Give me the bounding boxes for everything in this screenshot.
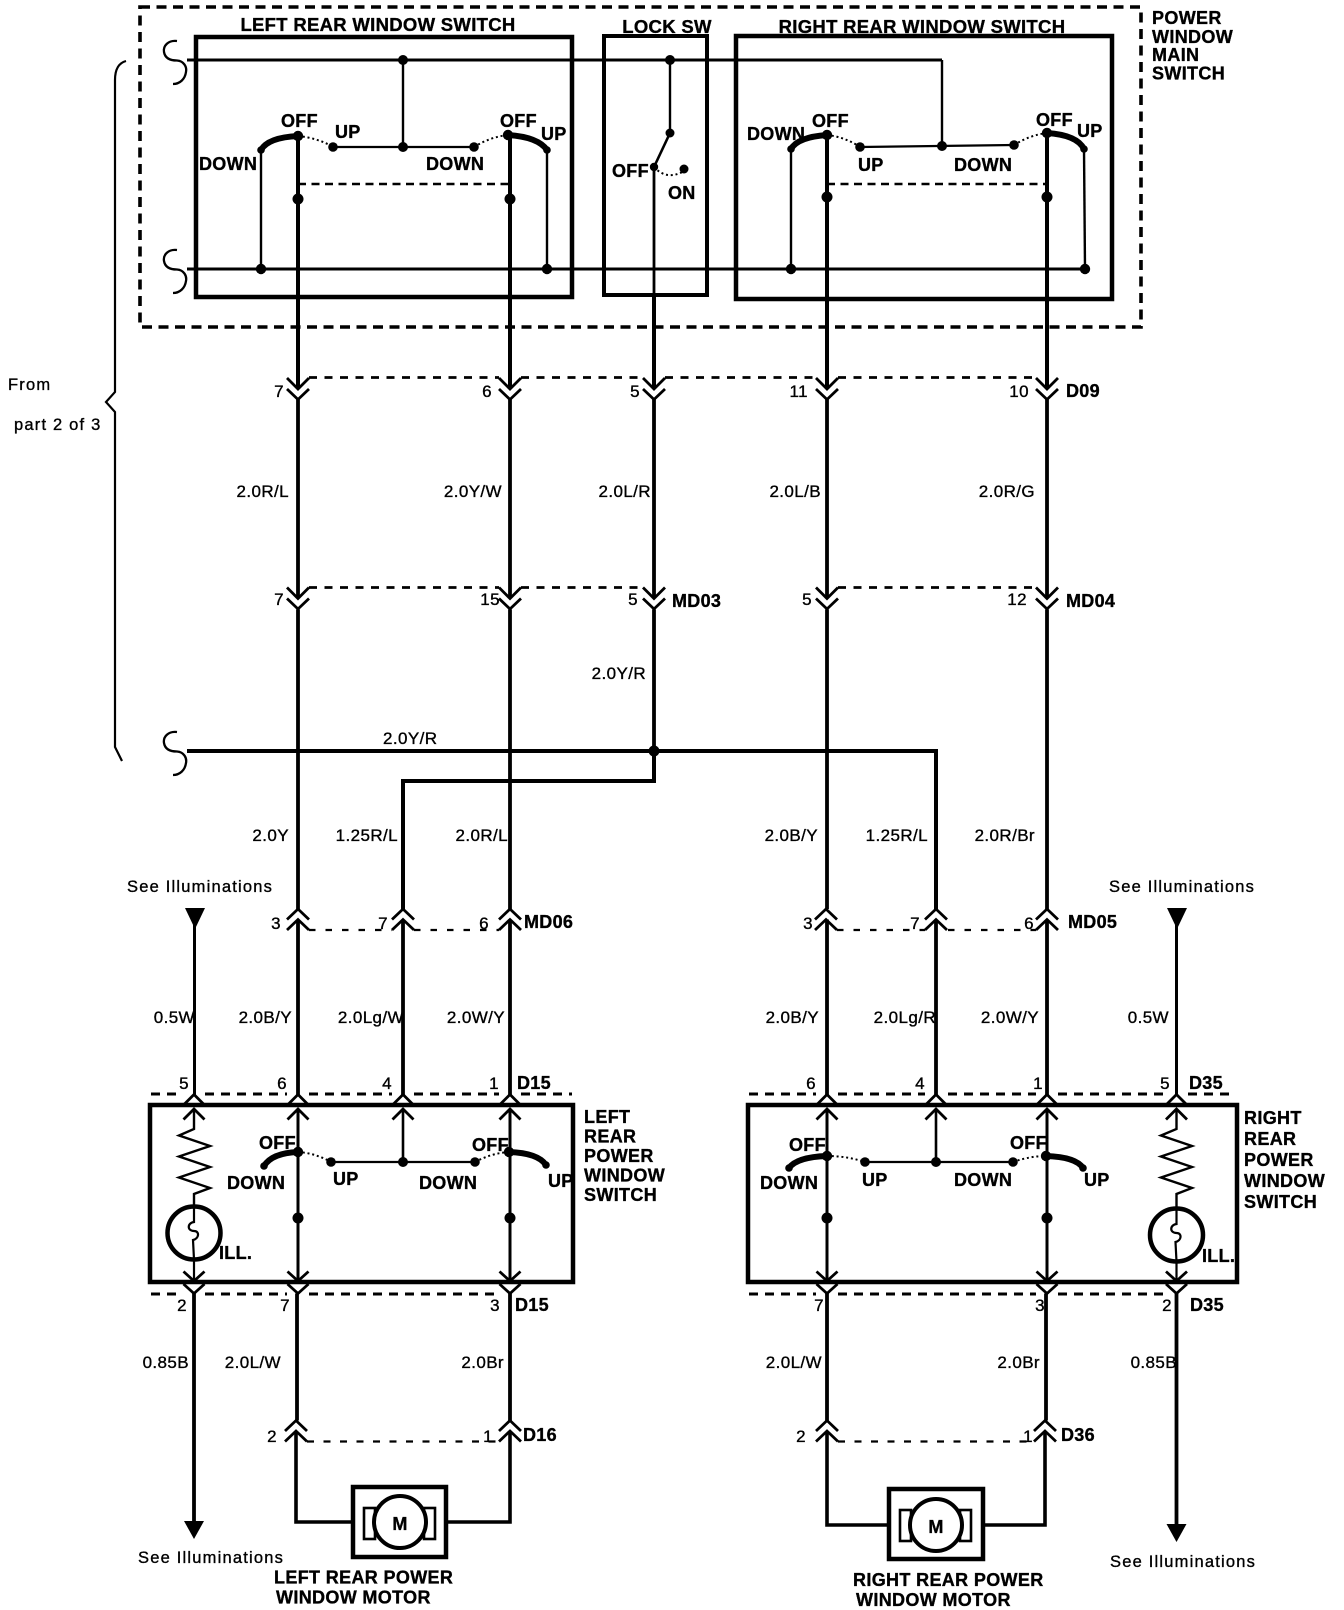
connector MD04 pin 12 bbox=[1007, 588, 1058, 610]
wire 2.0L/B D09-MD04 bbox=[825, 400, 829, 599]
connector MD06 pin 7 bbox=[378, 909, 414, 933]
svg-text:DOWN: DOWN bbox=[954, 1170, 1012, 1190]
wire pin1 internal left box bbox=[509, 1109, 512, 1281]
wire top bus drop right box bbox=[941, 60, 943, 146]
svg-text:2.0R/G: 2.0R/G bbox=[979, 482, 1035, 501]
connector D09 pin 5 bbox=[630, 378, 665, 401]
connector D09 pin 11 bbox=[790, 378, 838, 401]
wire bottom bus bbox=[187, 268, 1086, 271]
contact bar lower-right box bbox=[865, 1161, 1013, 1163]
switch right box sw1 pivot bbox=[822, 130, 832, 140]
svg-text:POWER: POWER bbox=[1152, 8, 1222, 28]
svg-text:WINDOW: WINDOW bbox=[584, 1166, 665, 1186]
switch left box sw2 pivot bbox=[503, 130, 513, 140]
svg-text:LEFT REAR WINDOW SWITCH: LEFT REAR WINDOW SWITCH bbox=[240, 14, 515, 35]
node UP leg right bottom bus bbox=[1080, 264, 1090, 274]
right rear power window switch box bbox=[748, 1105, 1237, 1282]
wire top bus drop left box bbox=[402, 60, 404, 147]
connector MD04 pin 5 bbox=[802, 588, 838, 610]
switch lower-right sw1 pivot bbox=[822, 1151, 832, 1161]
wire pivot leg right sw2 bbox=[1045, 133, 1049, 389]
contact dot left sw2 bbox=[469, 142, 479, 152]
svg-text:OFF: OFF bbox=[789, 1135, 826, 1155]
power window main switch dashed box bbox=[140, 7, 1141, 327]
arrow see illuminations bottom left bbox=[184, 1521, 204, 1539]
wire 0.5W left bbox=[193, 925, 196, 1095]
svg-text:2.0Br: 2.0Br bbox=[461, 1353, 504, 1372]
lock switch box bbox=[604, 36, 707, 295]
switch right box sw1 dotted travel bbox=[827, 135, 860, 147]
wire right motor feed right bbox=[983, 1431, 1045, 1525]
connector MD05 pin 7 bbox=[910, 909, 947, 933]
connector MD03 pin 5 bbox=[628, 588, 665, 610]
wire 2.0R/Br MD04-MD05 bbox=[1045, 610, 1049, 910]
connector D35 pin 1 bbox=[1033, 1074, 1057, 1120]
switch right box sw2 blade bbox=[1047, 133, 1084, 149]
wire left motor feed right bbox=[446, 1431, 510, 1522]
svg-text:1: 1 bbox=[483, 1427, 493, 1446]
wire break top bus bbox=[164, 41, 186, 84]
wire 2.0B/Y MD06-D15 bbox=[296, 920, 300, 1095]
svg-text:SWITCH: SWITCH bbox=[1152, 64, 1225, 84]
switch right box sw1 blade tip bbox=[787, 145, 795, 153]
motor right brush right bbox=[960, 1510, 971, 1541]
motor left rear power window housing bbox=[353, 1487, 446, 1557]
resistor left ILL bbox=[179, 1109, 210, 1207]
svg-text:POWER: POWER bbox=[1244, 1150, 1314, 1170]
svg-text:SWITCH: SWITCH bbox=[584, 1185, 657, 1205]
wire 0.85B left bbox=[192, 1294, 196, 1522]
svg-text:6: 6 bbox=[806, 1074, 816, 1093]
dashed link right box bbox=[827, 183, 1047, 185]
svg-text:UP: UP bbox=[1077, 121, 1103, 141]
node drop to contact bar right bbox=[937, 141, 947, 151]
svg-text:UP: UP bbox=[335, 122, 361, 142]
wire DOWN leg right sw1 bbox=[790, 149, 792, 269]
svg-text:1.25R/L: 1.25R/L bbox=[866, 826, 928, 845]
wire DOWN leg left sw1 bbox=[260, 150, 262, 269]
svg-text:3: 3 bbox=[490, 1296, 500, 1315]
svg-text:0.5W: 0.5W bbox=[1128, 1008, 1169, 1027]
contact dot DOWN right sw2 bbox=[1009, 140, 1019, 150]
svg-text:5: 5 bbox=[1160, 1074, 1170, 1093]
switch left box sw1 pivot bbox=[293, 131, 303, 141]
svg-text:LEFT REAR POWER: LEFT REAR POWER bbox=[274, 1568, 453, 1588]
wire 2.0R/L D09-MD03 bbox=[296, 400, 300, 599]
connector D35 pin 6 bbox=[806, 1074, 837, 1120]
motor right brush left bbox=[900, 1510, 911, 1541]
motor left rotor M bbox=[374, 1496, 426, 1548]
svg-text:1.25R/L: 1.25R/L bbox=[336, 826, 398, 845]
svg-text:1: 1 bbox=[1023, 1427, 1033, 1446]
dashed row D09 bbox=[309, 376, 1036, 379]
svg-text:WINDOW MOTOR: WINDOW MOTOR bbox=[276, 1588, 431, 1608]
node UP leg bottom bus bbox=[542, 264, 552, 274]
svg-text:5: 5 bbox=[802, 590, 812, 609]
label From part 2 of 3 bbox=[8, 376, 102, 434]
wire pin6 internal right box bbox=[826, 1109, 829, 1281]
svg-text:DOWN: DOWN bbox=[227, 1173, 285, 1193]
wire lock switch drop bbox=[669, 60, 671, 133]
connector MD03 pin 7 bbox=[274, 588, 309, 610]
connector D35 pin 5 bbox=[1160, 1074, 1187, 1120]
wire 2.0R/L MD03-MD06 bbox=[508, 610, 512, 910]
svg-text:7: 7 bbox=[274, 590, 284, 609]
dashed row MD04 bbox=[838, 586, 1036, 589]
svg-text:POWER: POWER bbox=[584, 1146, 654, 1166]
connector D15 pin 1 bbox=[489, 1074, 520, 1120]
node DOWN leg bottom bus bbox=[256, 264, 266, 274]
node pivot leg left sw1 bbox=[293, 194, 304, 205]
node pin1 leg lower-left bbox=[505, 1213, 516, 1224]
svg-text:WINDOW: WINDOW bbox=[1244, 1171, 1325, 1191]
svg-text:D15: D15 bbox=[517, 1073, 551, 1093]
svg-text:RIGHT REAR WINDOW SWITCH: RIGHT REAR WINDOW SWITCH bbox=[779, 16, 1066, 37]
svg-text:RIGHT REAR POWER: RIGHT REAR POWER bbox=[853, 1570, 1044, 1590]
svg-text:DOWN: DOWN bbox=[954, 155, 1012, 175]
label LEFT REAR POWER WINDOW MOTOR bbox=[274, 1568, 453, 1608]
svg-text:UP: UP bbox=[1084, 1170, 1110, 1190]
svg-text:2.0Lg/R: 2.0Lg/R bbox=[874, 1008, 936, 1027]
svg-text:D09: D09 bbox=[1066, 381, 1100, 401]
node DOWN leg right bottom bus bbox=[786, 264, 796, 274]
svg-text:UP: UP bbox=[858, 155, 884, 175]
wire 2.0Y MD03-MD06 bbox=[296, 610, 300, 910]
left rear window switch box bbox=[196, 37, 572, 297]
switch lower-left sw2 blade tip bbox=[542, 1161, 550, 1169]
svg-text:D15: D15 bbox=[515, 1295, 549, 1315]
lamp left ILL bulb bbox=[168, 1207, 221, 1260]
svg-text:REAR: REAR bbox=[1244, 1129, 1296, 1149]
svg-text:ON: ON bbox=[668, 183, 696, 203]
label RIGHT REAR POWER WINDOW MOTOR bbox=[853, 1570, 1044, 1610]
svg-text:6: 6 bbox=[482, 382, 492, 401]
connector D15 bottom pin 2 bbox=[177, 1272, 204, 1316]
svg-text:7: 7 bbox=[280, 1296, 290, 1315]
svg-text:DOWN: DOWN bbox=[760, 1173, 818, 1193]
svg-text:2.0W/Y: 2.0W/Y bbox=[981, 1008, 1039, 1027]
wire 2.0R/G D09-MD04 bbox=[1045, 400, 1049, 599]
connector D15 bottom pin 7 bbox=[280, 1272, 308, 1316]
left rear power window switch box bbox=[150, 1105, 573, 1282]
svg-text:DOWN: DOWN bbox=[419, 1173, 477, 1193]
svg-text:2.0W/Y: 2.0W/Y bbox=[447, 1008, 505, 1027]
switch lower-left sw1 pivot bbox=[293, 1147, 303, 1157]
dashed row D16 bbox=[307, 1440, 499, 1442]
connector MD05 pin 6 bbox=[1024, 909, 1058, 933]
switch lower-left sw1 blade tip bbox=[260, 1162, 268, 1170]
switch left box sw2 blade tip bbox=[543, 146, 551, 154]
switch left box sw2 blade bbox=[508, 135, 547, 150]
svg-text:0.85B: 0.85B bbox=[1131, 1353, 1177, 1372]
svg-text:REAR: REAR bbox=[584, 1127, 636, 1147]
svg-text:SWITCH: SWITCH bbox=[1244, 1192, 1317, 1212]
node pin6 leg lower-right bbox=[822, 1213, 833, 1224]
svg-text:7: 7 bbox=[274, 382, 284, 401]
svg-text:M: M bbox=[392, 1514, 407, 1534]
svg-text:2.0Y: 2.0Y bbox=[252, 826, 289, 845]
dashed row MD03 bbox=[309, 586, 643, 589]
svg-text:1: 1 bbox=[1033, 1074, 1043, 1093]
lamp right ILL bulb bbox=[1150, 1209, 1203, 1262]
node 2.0Y/R junction bbox=[649, 746, 660, 757]
dashed row D35 top bbox=[749, 1093, 1236, 1096]
connector D35 bottom pin 3 bbox=[1035, 1272, 1057, 1316]
label RIGHT REAR POWER WINDOW SWITCH bbox=[1244, 1108, 1325, 1212]
wire 2.0L/R D09-MD03 bbox=[652, 400, 656, 599]
contact bar lower-left box bbox=[331, 1161, 475, 1163]
svg-text:UP: UP bbox=[862, 1170, 888, 1190]
svg-text:7: 7 bbox=[814, 1296, 824, 1315]
wire pivot leg right sw1 bbox=[825, 135, 829, 389]
svg-text:D35: D35 bbox=[1189, 1073, 1223, 1093]
arrow see illuminations bottom right bbox=[1167, 1524, 1187, 1542]
wire lock pivot leg below box bbox=[652, 293, 656, 389]
wire 2.0Y/R horizontal bus bbox=[187, 751, 936, 909]
svg-text:OFF: OFF bbox=[281, 111, 318, 131]
svg-text:DOWN: DOWN bbox=[199, 154, 257, 174]
svg-text:OFF: OFF bbox=[612, 161, 649, 181]
svg-text:5: 5 bbox=[630, 382, 640, 401]
svg-text:2.0L/W: 2.0L/W bbox=[766, 1353, 822, 1372]
switch right box sw2 dotted travel bbox=[1014, 133, 1047, 145]
switch left box sw2 dotted travel bbox=[474, 135, 508, 147]
contact dot DOWN lower-right sw2 bbox=[1008, 1157, 1018, 1167]
wire break bottom bus bbox=[164, 250, 186, 293]
dashed row D35 bottom bbox=[749, 1293, 1166, 1296]
svg-text:2.0L/R: 2.0L/R bbox=[599, 482, 652, 501]
svg-text:2.0R/L: 2.0R/L bbox=[456, 826, 509, 845]
node drop to contact bar left bbox=[398, 142, 408, 152]
connector D15 pin 4 bbox=[382, 1074, 413, 1120]
wire 2.0W/Y MD06-D15 bbox=[508, 920, 512, 1095]
wire 1.25R/L branch to MD06 bbox=[403, 751, 654, 909]
wire pin1 internal right box bbox=[1046, 1109, 1049, 1281]
wire pin4 drop to bar bbox=[402, 1109, 405, 1162]
lock switch blade bbox=[654, 133, 670, 167]
node pivot leg right sw1 bbox=[822, 192, 833, 203]
wire lock pivot leg bbox=[653, 167, 656, 295]
svg-text:D16: D16 bbox=[523, 1425, 557, 1445]
connector D35 bottom pin 7 bbox=[814, 1272, 837, 1316]
node pin4 bar junction right bbox=[931, 1157, 941, 1167]
wire left motor feed left bbox=[296, 1431, 353, 1522]
lamp left filament bbox=[189, 1207, 198, 1282]
svg-text:2.0Y/R: 2.0Y/R bbox=[383, 729, 437, 748]
motor left brush right bbox=[424, 1508, 435, 1539]
lock ON contact bbox=[680, 165, 689, 174]
contact bar left box bbox=[333, 146, 474, 148]
svg-text:See Illuminations: See Illuminations bbox=[1110, 1553, 1256, 1571]
connector MD03 pin 15 bbox=[480, 588, 521, 610]
wire pivot leg left sw2 bbox=[508, 135, 512, 389]
dashed row D15 bottom bbox=[151, 1293, 499, 1296]
contact dot DOWN lower-left sw2 bbox=[470, 1157, 480, 1167]
wire 2.0L/W left D15-D16 bbox=[295, 1294, 299, 1421]
svg-text:ILL.: ILL. bbox=[1202, 1246, 1235, 1266]
svg-text:7: 7 bbox=[910, 914, 920, 933]
connector D35 bottom pin 2 bbox=[1162, 1272, 1187, 1316]
wire UP leg right sw2 bbox=[1084, 149, 1085, 269]
svg-text:12: 12 bbox=[1007, 590, 1027, 609]
svg-text:2.0R/L: 2.0R/L bbox=[237, 482, 290, 501]
svg-text:UP: UP bbox=[333, 1169, 359, 1189]
right rear window switch box bbox=[736, 36, 1112, 299]
svg-text:From: From bbox=[8, 376, 51, 394]
lamp right filament bbox=[1171, 1209, 1180, 1282]
switch right box sw1 blade bbox=[791, 135, 827, 149]
node top bus to left switch bbox=[398, 55, 408, 65]
contact dot UP lower-right sw1 bbox=[860, 1157, 870, 1167]
svg-text:OFF: OFF bbox=[500, 111, 537, 131]
wire pin6 internal left box bbox=[297, 1109, 300, 1281]
dashed row MD05 bbox=[837, 929, 1036, 931]
resistor right ILL bbox=[1161, 1109, 1192, 1209]
wire 2.0Br right D35-D36 bbox=[1044, 1294, 1048, 1421]
svg-text:MD04: MD04 bbox=[1066, 591, 1115, 611]
switch lower-right sw2 dotted travel bbox=[1013, 1156, 1046, 1162]
svg-text:RIGHT: RIGHT bbox=[1244, 1108, 1302, 1128]
wire 2.0Lg/W MD06-D15 bbox=[401, 920, 405, 1095]
svg-text:OFF: OFF bbox=[259, 1133, 296, 1153]
wire 2.0Lg/R MD05-D35 bbox=[934, 920, 938, 1095]
svg-text:15: 15 bbox=[480, 590, 500, 609]
svg-text:2.0B/Y: 2.0B/Y bbox=[239, 1008, 292, 1027]
svg-text:0.85B: 0.85B bbox=[143, 1353, 189, 1372]
svg-text:D36: D36 bbox=[1061, 1425, 1095, 1445]
svg-text:2.0R/Br: 2.0R/Br bbox=[975, 826, 1035, 845]
node pin1 leg lower-right bbox=[1042, 1213, 1053, 1224]
svg-text:5: 5 bbox=[628, 590, 638, 609]
lock OFF contact bbox=[650, 163, 658, 171]
contact dot UP left sw1 bbox=[328, 142, 338, 152]
node pin4 bar junction bbox=[398, 1157, 408, 1167]
dashed link left box bbox=[298, 183, 508, 185]
switch lower-right sw2 pivot bbox=[1041, 1151, 1051, 1161]
switch left box sw1 blade bbox=[261, 136, 298, 150]
node pin6 leg lower-left bbox=[293, 1213, 304, 1224]
node pivot leg right sw2 bbox=[1042, 192, 1053, 203]
svg-text:3: 3 bbox=[271, 914, 281, 933]
node pivot leg left sw2 bbox=[505, 194, 516, 205]
connector MD05 pin 3 bbox=[803, 909, 837, 933]
svg-text:OFF: OFF bbox=[472, 1135, 509, 1155]
wire 2.0Y/R MD03 to junction bbox=[652, 610, 656, 752]
wire pin4 drop to bar right bbox=[935, 1109, 938, 1162]
svg-text:LOCK SW: LOCK SW bbox=[622, 16, 712, 37]
svg-text:2.0Br: 2.0Br bbox=[997, 1353, 1040, 1372]
svg-text:2.0L/B: 2.0L/B bbox=[769, 482, 821, 501]
svg-text:M: M bbox=[928, 1517, 943, 1537]
wire right motor feed left bbox=[827, 1431, 889, 1525]
svg-text:4: 4 bbox=[915, 1074, 925, 1093]
switch right box sw2 pivot bbox=[1042, 128, 1052, 138]
wire 2.0B/Y MD05-D35 bbox=[825, 920, 829, 1095]
connector D36 pin 2 bbox=[796, 1421, 838, 1447]
svg-text:0.5W: 0.5W bbox=[154, 1008, 195, 1027]
switch lower-right sw2 blade tip bbox=[1079, 1164, 1087, 1172]
wire pivot leg left sw1 bbox=[296, 136, 300, 389]
connector D35 pin 4 bbox=[915, 1074, 946, 1120]
svg-text:LEFT: LEFT bbox=[584, 1107, 630, 1127]
arrow see illuminations right bbox=[1167, 908, 1187, 929]
connector MD06 pin 6 bbox=[479, 909, 521, 933]
wire 2.0W/Y MD05-D35 bbox=[1045, 920, 1049, 1095]
motor left brush left bbox=[364, 1508, 375, 1539]
wire 2.0Y/W D09-MD03 bbox=[508, 400, 512, 599]
svg-text:2.0L/W: 2.0L/W bbox=[225, 1353, 281, 1372]
wire 0.85B right bbox=[1175, 1294, 1179, 1525]
svg-text:1: 1 bbox=[489, 1074, 499, 1093]
svg-text:6: 6 bbox=[277, 1074, 287, 1093]
switch lower-right sw1 blade tip bbox=[785, 1164, 793, 1172]
motor right rotor M bbox=[910, 1499, 962, 1551]
wire UP leg left sw2 bbox=[546, 150, 548, 269]
svg-text:UP: UP bbox=[541, 124, 567, 144]
connector D09 pin 7 bbox=[274, 378, 309, 401]
svg-text:MAIN: MAIN bbox=[1152, 45, 1199, 65]
svg-text:MD05: MD05 bbox=[1068, 912, 1117, 932]
bracket from part 2 of 3 bbox=[106, 61, 126, 761]
switch lower-left sw1 dotted travel bbox=[298, 1152, 331, 1162]
svg-text:2: 2 bbox=[267, 1427, 277, 1446]
contact bar right box bbox=[860, 145, 1014, 147]
svg-text:2: 2 bbox=[796, 1427, 806, 1446]
svg-text:2.0B/Y: 2.0B/Y bbox=[765, 826, 818, 845]
svg-text:See Illuminations: See Illuminations bbox=[138, 1549, 284, 1567]
wire 2.0B/Y MD04-MD05 bbox=[825, 610, 829, 910]
switch lower-right sw2 blade bbox=[1046, 1156, 1083, 1168]
svg-text:MD06: MD06 bbox=[524, 912, 573, 932]
svg-text:11: 11 bbox=[790, 382, 808, 401]
label POWER WINDOW MAIN SWITCH bbox=[1152, 8, 1233, 84]
label LEFT REAR POWER WINDOW SWITCH bbox=[584, 1107, 665, 1205]
switch lower-left sw2 pivot bbox=[504, 1147, 514, 1157]
svg-text:OFF: OFF bbox=[812, 111, 849, 131]
svg-text:4: 4 bbox=[382, 1074, 392, 1093]
svg-text:2.0Y/W: 2.0Y/W bbox=[444, 482, 502, 501]
connector MD06 pin 3 bbox=[271, 909, 309, 933]
connector D15 pin 6 bbox=[277, 1074, 308, 1120]
svg-text:OFF: OFF bbox=[1010, 1133, 1047, 1153]
svg-text:MD03: MD03 bbox=[672, 591, 721, 611]
wire 2.0Br left D15-D16 bbox=[508, 1294, 512, 1421]
svg-text:10: 10 bbox=[1009, 382, 1029, 401]
svg-text:3: 3 bbox=[1035, 1296, 1045, 1315]
svg-text:WINDOW MOTOR: WINDOW MOTOR bbox=[856, 1590, 1011, 1610]
svg-text:2: 2 bbox=[1162, 1296, 1172, 1315]
switch lower-right sw1 dotted travel bbox=[827, 1156, 865, 1162]
svg-text:2.0Lg/W: 2.0Lg/W bbox=[338, 1008, 404, 1027]
switch lower-left sw2 dotted travel bbox=[475, 1152, 509, 1162]
svg-text:3: 3 bbox=[803, 914, 813, 933]
motor right rear power window housing bbox=[889, 1489, 983, 1559]
contact dot UP right sw1 bbox=[855, 142, 865, 152]
switch left box sw1 dotted travel bbox=[298, 136, 333, 147]
dashed row D36 bbox=[838, 1440, 1034, 1442]
svg-text:UP: UP bbox=[548, 1171, 574, 1191]
connector D09 pin 10 bbox=[1009, 378, 1058, 401]
switch right box sw2 blade tip bbox=[1080, 145, 1088, 153]
node lock blade pivot bbox=[666, 129, 675, 138]
connector D16 pin 1 bbox=[483, 1421, 521, 1447]
svg-text:DOWN: DOWN bbox=[426, 154, 484, 174]
wire 0.5W right bbox=[1175, 925, 1178, 1095]
svg-text:D35: D35 bbox=[1190, 1295, 1224, 1315]
lock dotted travel bbox=[654, 167, 684, 175]
connector D16 pin 2 bbox=[267, 1421, 307, 1447]
svg-text:5: 5 bbox=[179, 1074, 189, 1093]
